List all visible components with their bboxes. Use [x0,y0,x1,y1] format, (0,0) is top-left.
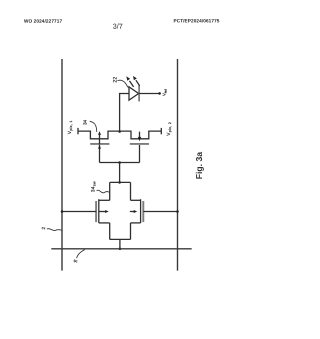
switch block top wire [110,181,131,183]
switch block top-right vertical [130,182,132,200]
junction dot on row rail [119,248,122,251]
wire: LED anode to top node [120,94,129,132]
svg-text:22: 22 [113,77,119,83]
leader squiggle from 34sw to block [97,190,110,193]
junction dot on right column line [176,210,179,213]
transistor M4 gate bar [142,201,144,222]
svg-text:PCT/EP2024/061775: PCT/EP2024/061775 [173,18,219,23]
LED light emission arrow 2 [133,76,140,86]
junction dot on left column line [61,210,64,213]
junction dot top node [118,130,121,133]
wire: gate bus between M1 and M2 [100,162,140,164]
svg-text:3/7: 3/7 [113,22,123,31]
LED D1 cathode bar [138,85,140,101]
wire: LED cathode to Vled terminal [139,93,159,95]
row rail R [51,248,191,250]
transistor M2 bulk arrow (down) [138,132,141,142]
transistor M1 bulk arrow (up) [98,131,101,144]
svg-text:2: 2 [41,226,46,229]
leader line from 22 to LED [118,80,129,87]
switch block bottom-left vertical [109,223,111,240]
LED D1 triangle [129,87,139,100]
transistor M4 bulk arrow (right, into channel) [130,210,137,213]
LED light emission arrow 1 [126,76,133,87]
right column line (pixel cell boundary) [177,59,179,271]
transistor M2 gate bar [130,143,149,145]
transistor M4 gate lead to right column [143,211,177,213]
transistor M4 (switch right) drain lead [131,199,141,201]
transistor M3 channel [98,199,100,223]
transistor M3 (switch left) drain lead [99,199,110,201]
transistor M3 source lead [99,222,110,224]
transistor M1 (top-left) source/drain path [78,131,120,139]
terminal Vpix,1 [77,128,79,134]
transistor M3 gate bar [95,201,97,222]
transistor M3 bulk arrow (right) [99,210,108,213]
transistor M2 (top-right) source/drain path [120,131,162,139]
leader squiggle from 2 to left column line [47,229,62,231]
junction dot gate bus center [118,161,121,164]
transistor M3 gate lead to left column [62,211,96,213]
svg-text:Fig. 3a: Fig. 3a [194,152,204,179]
transistor M4 channel [140,199,142,223]
transistor M4 source lead [131,222,141,224]
terminal dot Vled [158,92,161,95]
transistor M1 gate lead down with arrowhead [98,145,101,163]
transistor M2 gate lead down [139,145,141,163]
junction dot at switch block top [118,181,121,184]
svg-text:8c: 8c [74,259,78,263]
leader from 8c to rail [77,250,85,259]
terminal Vpix,2 [160,128,162,134]
left column line (pixel cell boundary) [61,59,63,271]
leader line from 34 to M1 [90,121,97,132]
switch block bottom-right vertical [130,223,132,240]
wire: center vertical to switch block [119,163,121,183]
svg-text:WO 2024/227717: WO 2024/227717 [24,19,62,24]
switch block bottom wire [110,238,131,240]
wire: switch block to row rail [119,239,121,248]
switch block top-left vertical [109,182,111,200]
transistor M1 gate bar [90,143,109,145]
svg-text:34: 34 [83,119,88,125]
